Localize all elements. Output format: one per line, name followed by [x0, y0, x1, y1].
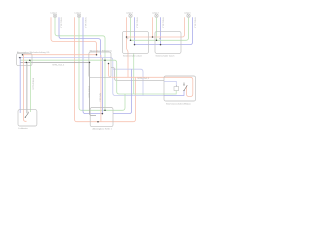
wire blue pair drop — [101, 58, 103, 114]
svg-text:NYM-J 3x1,5: NYM-J 3x1,5 — [135, 18, 137, 28]
wire lamp1 green run — [55, 17, 105, 110]
wire lamp3 orange run to relay — [127, 17, 129, 77]
junction dot switch A blue — [134, 44, 136, 46]
junction dot switch A green — [130, 40, 132, 42]
bottom left switch box — [18, 110, 37, 126]
wire grey switched run — [90, 62, 97, 115]
svg-text:Lichttaster: Lichttaster — [18, 127, 28, 130]
svg-text:Abzweigdose Wechselschaltung O: Abzweigdose Wechselschaltung OG — [17, 51, 50, 54]
wire junction box green feed — [20, 59, 105, 61]
junction dot left box green tap — [29, 59, 31, 61]
svg-text:NYM-J 3x1,5: NYM-J 3x1,5 — [138, 78, 150, 80]
bottom center junction box — [90, 108, 113, 127]
wire junction box orange feed — [23, 54, 97, 56]
svg-text:Lampe 2: Lampe 2 — [75, 13, 82, 15]
wire junction box lavender feed to relay — [19, 58, 165, 96]
wire left drop orange — [24, 55, 27, 122]
junction dot central box orange — [96, 54, 98, 56]
lamp E5 — [187, 14, 191, 17]
svg-text:Lampe 1: Lampe 1 — [51, 13, 58, 15]
wire lamp2 orange run — [75, 17, 136, 122]
svg-text:Serienschalter 2-fach: Serienschalter 2-fach — [156, 54, 175, 57]
lamp E4 — [155, 14, 159, 17]
relay box Eltako — [164, 76, 196, 101]
junction dot left box orange tap — [22, 54, 24, 56]
svg-text:Abzweigdose EG (intern): Abzweigdose EG (intern) — [90, 49, 113, 52]
wire bottom box green branch — [113, 94, 125, 110]
wire lavender loop branch — [113, 69, 143, 95]
wire central box green to relay — [105, 60, 164, 94]
junction dot central box grey — [89, 62, 91, 64]
junction dot bottom box green — [104, 110, 106, 112]
wire switch row orange bus — [127, 17, 185, 37]
bottom-left switch symbol — [25, 112, 28, 118]
wire central box grey to relay — [111, 68, 164, 81]
svg-text:q1: q1 — [127, 38, 129, 40]
switch box B — [155, 31, 181, 53]
junction dot left box blue tap — [19, 57, 21, 59]
wire switch row blue bus — [135, 17, 193, 44]
relay blue to contact — [164, 91, 184, 96]
switch box A — [122, 31, 148, 53]
central junction box — [89, 52, 111, 77]
wire switch row green bus — [131, 17, 189, 40]
svg-text:Lampe 4: Lampe 4 — [152, 13, 159, 15]
junction dot switch B green — [156, 40, 158, 42]
svg-text:NYM-J 3x1,5: NYM-J 3x1,5 — [59, 18, 61, 28]
junction dot left box grey tap — [26, 62, 28, 64]
junction dot bottom box orange — [97, 121, 99, 123]
wire lamp3 blue vertical — [134, 17, 136, 44]
svg-text:NYM-J 5x1,5: NYM-J 5x1,5 — [53, 65, 65, 67]
wire bottom box blue branch — [113, 69, 132, 113]
relay contact switch — [184, 83, 187, 91]
wire junction box dark grey feed — [20, 61, 90, 63]
wire left drop blue — [19, 58, 21, 113]
wire lamp2 blue run — [83, 17, 102, 113]
wire lamp3 green vertical — [130, 17, 132, 40]
svg-text:NYM-J 3x1,5: NYM-J 3x1,5 — [84, 18, 86, 28]
svg-text:Lampe 5: Lampe 5 — [184, 13, 191, 15]
junction dot switch B blue — [160, 44, 162, 46]
svg-text:NYM-J 5x1,5: NYM-J 5x1,5 — [32, 78, 34, 90]
svg-text:Abzweigdose Keller 1: Abzweigdose Keller 1 — [93, 128, 113, 131]
wire lamp4 green vertical — [156, 17, 158, 40]
svg-text:NYM 5x1,5: NYM 5x1,5 — [98, 93, 100, 101]
junction dot switch B orange — [152, 36, 154, 38]
wire left drop green — [29, 60, 31, 112]
wire lamp1 blue run — [59, 17, 101, 57]
lamp E1 — [53, 14, 57, 17]
junction dot central box green — [104, 59, 106, 61]
svg-text:NYM-J 3x1,5: NYM-J 3x1,5 — [193, 18, 195, 28]
wire lamp4 blue vertical — [160, 17, 162, 44]
relay coil K1 — [174, 87, 179, 91]
wire switchA green drop — [133, 53, 135, 94]
wire orange run to relay — [109, 64, 193, 97]
svg-text:NYM-J 3x1,5: NYM-J 3x1,5 — [161, 18, 163, 28]
wire lamp2 green run — [79, 17, 113, 110]
relay lavender feed to coil — [164, 81, 176, 86]
wire lamp4 orange vertical — [152, 17, 154, 37]
wire lamp1 orange run — [51, 17, 97, 55]
svg-text:Stromstossschalter (Eltako): Stromstossschalter (Eltako) — [166, 103, 191, 106]
junction box left (Abzweigdose Flur) — [17, 53, 32, 65]
relay green to coil — [164, 91, 176, 95]
svg-text:Lampe 3: Lampe 3 — [126, 13, 133, 15]
junction dot central box orange relay feed — [108, 63, 110, 65]
junction dot bottom box blue — [102, 113, 104, 115]
junction dot switch A orange — [126, 36, 128, 38]
svg-text:NYM-J 3x1,5: NYM-J 3x1,5 — [88, 86, 90, 98]
wire left drop grey — [26, 62, 28, 113]
wire orange pair drop — [100, 55, 102, 122]
lamp E3 — [129, 14, 133, 17]
svg-text:q2: q2 — [159, 38, 161, 40]
lamp E2 — [77, 14, 81, 17]
svg-text:Serienschalter 2-fach: Serienschalter 2-fach — [123, 54, 142, 57]
